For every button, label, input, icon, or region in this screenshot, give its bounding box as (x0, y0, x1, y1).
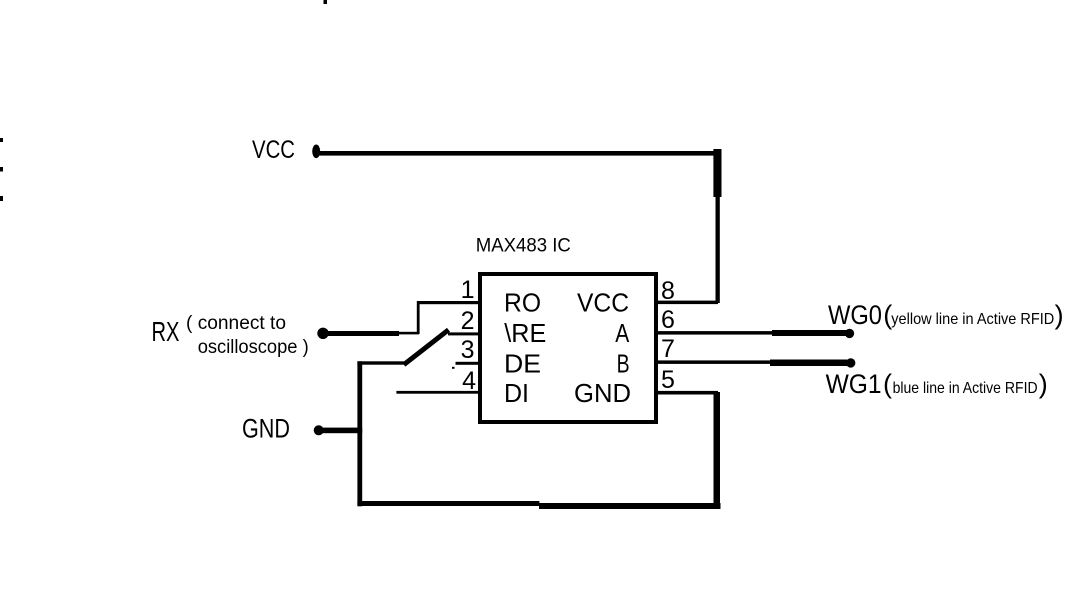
svg-text:A: A (615, 318, 630, 348)
svg-text:GND: GND (242, 413, 290, 443)
svg-text:B: B (617, 348, 630, 378)
svg-text:6: 6 (661, 306, 675, 334)
svg-text:DE: DE (504, 348, 541, 378)
svg-text:VCC: VCC (577, 288, 629, 318)
svg-text:4: 4 (462, 367, 476, 395)
svg-text:5: 5 (661, 366, 675, 394)
svg-text:oscilloscope ): oscilloscope ) (198, 337, 309, 358)
svg-text:3: 3 (461, 336, 475, 364)
svg-text:\RE: \RE (504, 318, 546, 348)
svg-text:MAX483 IC: MAX483 IC (476, 236, 571, 257)
svg-text:RX: RX (152, 316, 180, 347)
svg-text:( connect to: ( connect to (186, 313, 286, 334)
svg-text:1: 1 (461, 276, 475, 304)
svg-text:DI: DI (504, 378, 529, 408)
svg-text:RO: RO (504, 288, 541, 318)
svg-text:2: 2 (461, 307, 475, 335)
svg-text:7: 7 (661, 335, 675, 363)
svg-text:8: 8 (661, 277, 675, 305)
svg-text:VCC: VCC (252, 136, 295, 164)
svg-text:GND: GND (574, 378, 631, 408)
